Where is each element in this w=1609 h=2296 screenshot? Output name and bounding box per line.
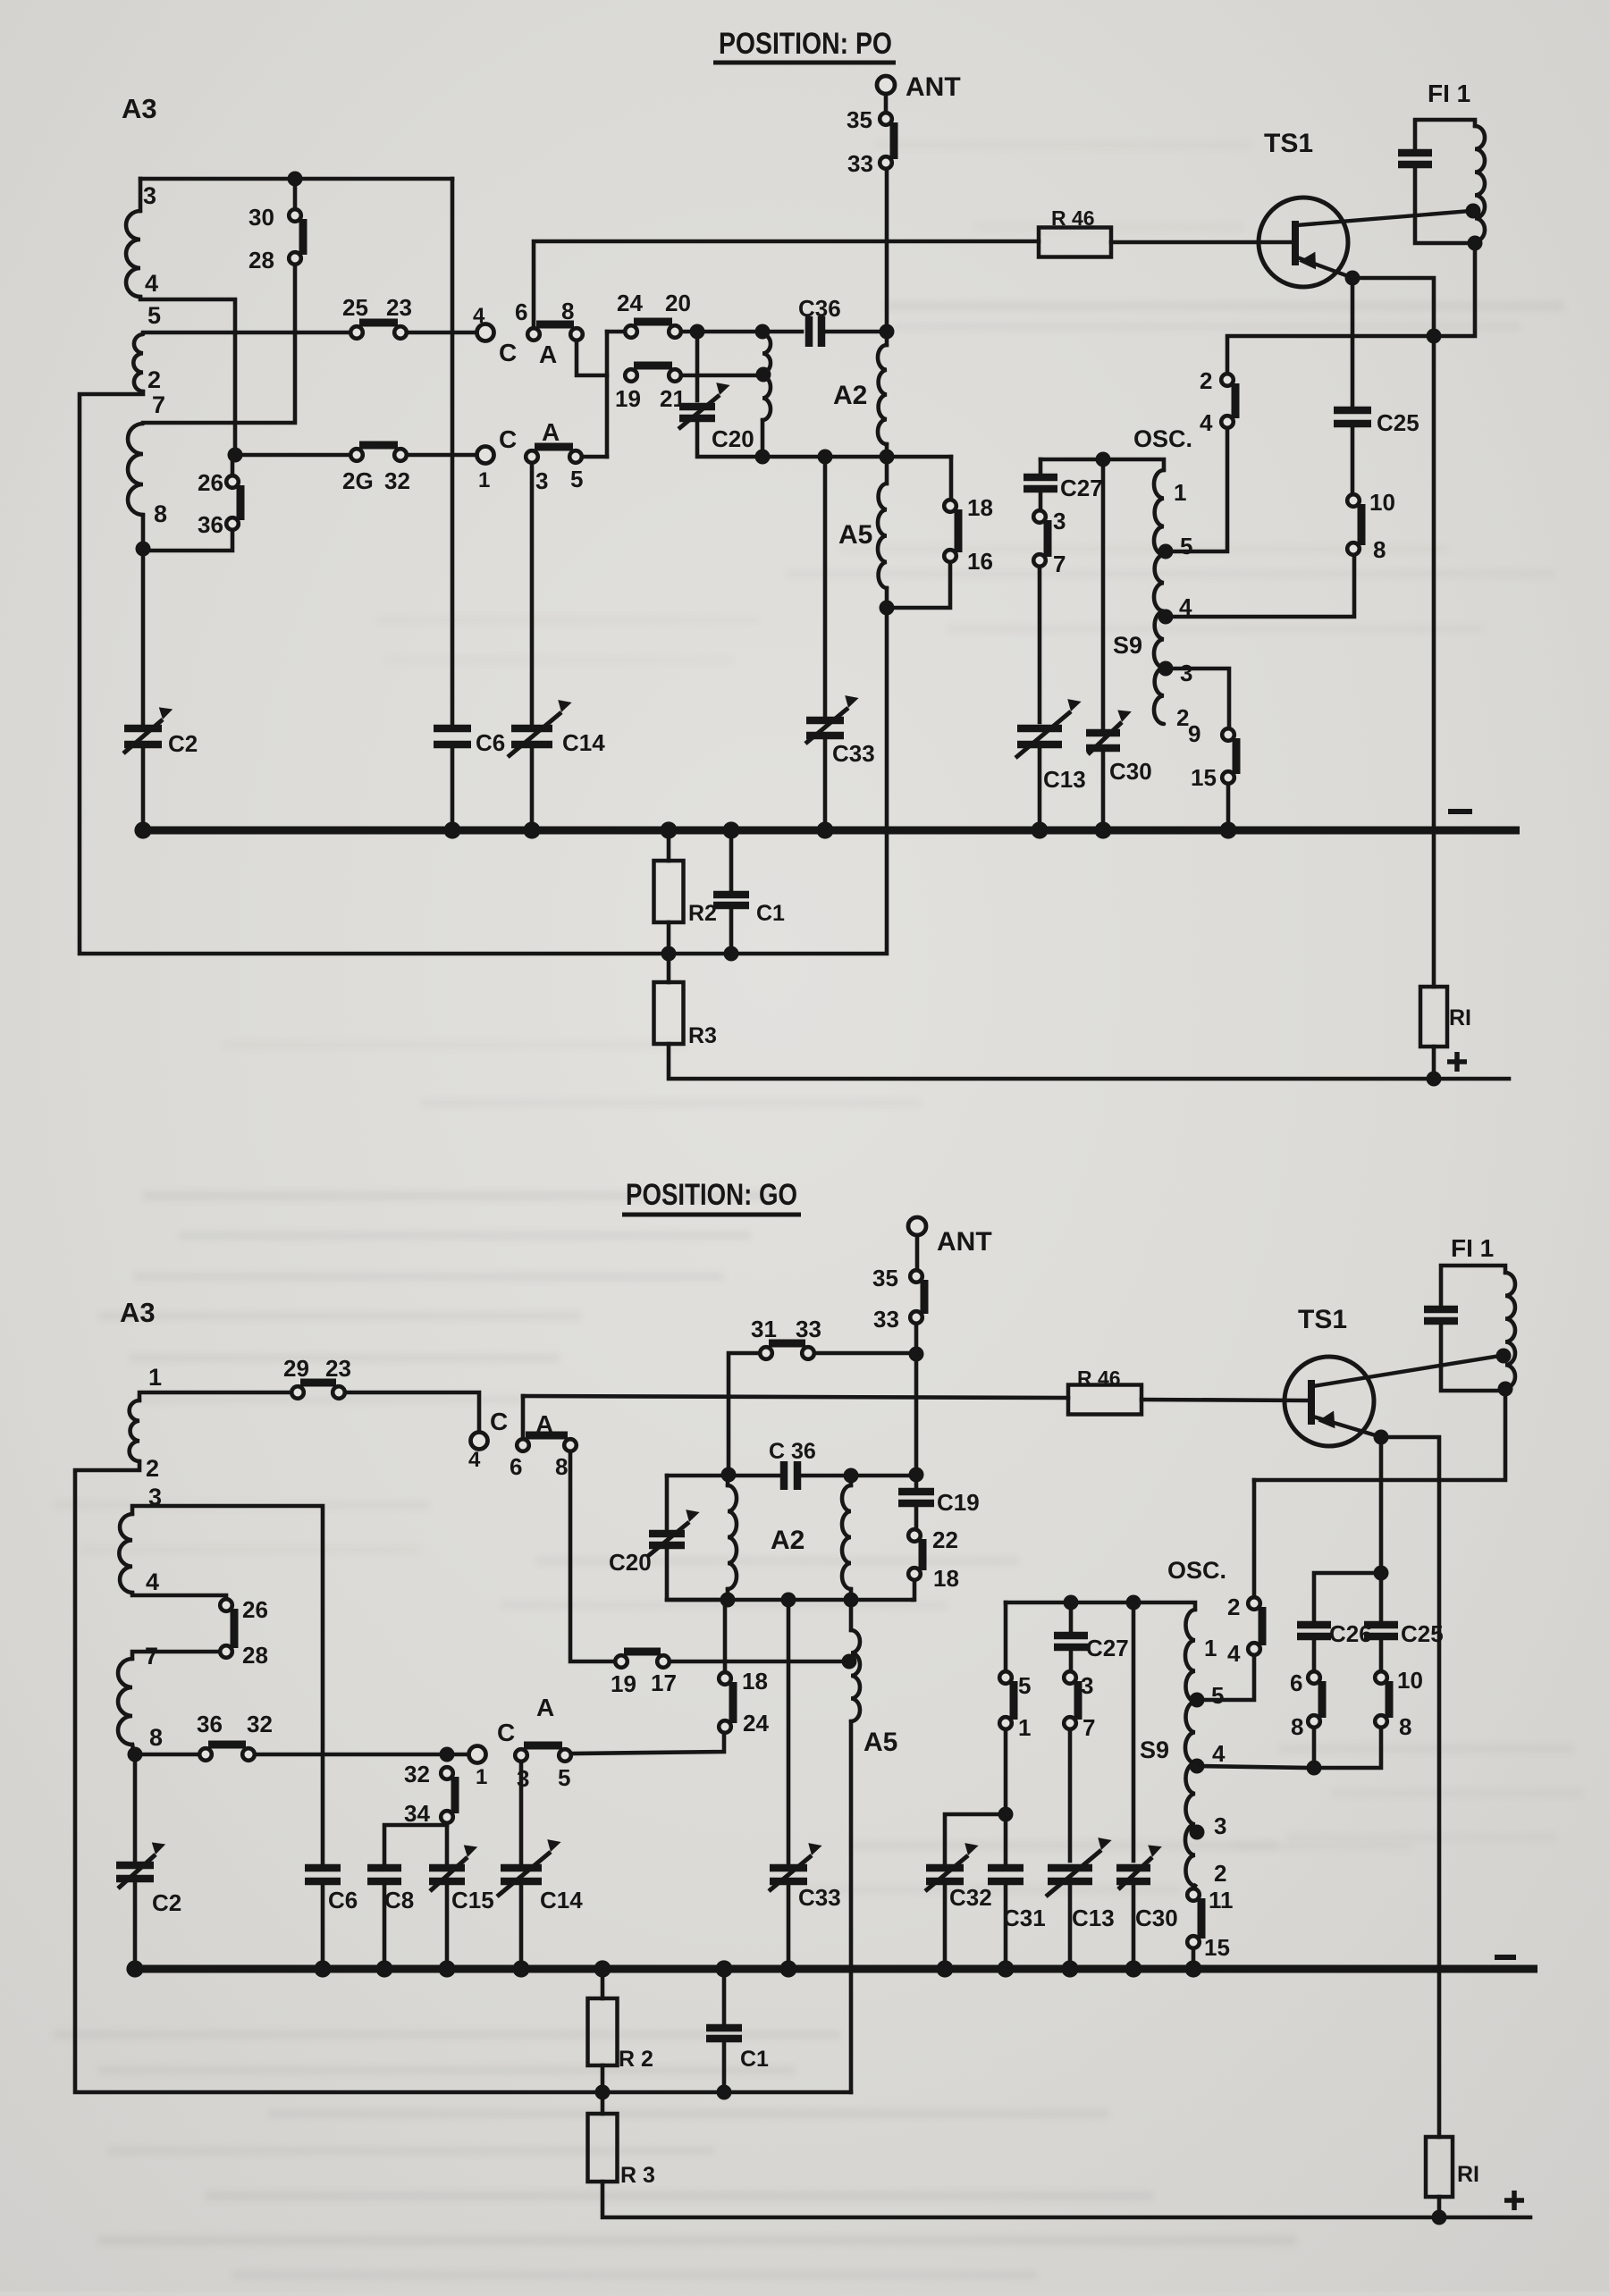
wire C26 up to node row	[1314, 1573, 1376, 1621]
title underline GO	[622, 1213, 801, 1217]
capacitor C36 GO plates	[780, 1461, 788, 1490]
wire bus to R2	[667, 830, 671, 861]
capacitor C20 plates	[679, 403, 715, 411]
switch 5/1 GO contact	[999, 1717, 1012, 1729]
switch 11/15 bar	[1198, 1898, 1206, 1939]
svg-text:6: 6	[1290, 1669, 1302, 1696]
switch 18/24 GO bar	[729, 1682, 737, 1723]
junction osc GO tap 3	[1190, 1825, 1205, 1840]
switch 30/28 contact	[289, 252, 301, 265]
svg-text:10: 10	[1369, 489, 1395, 516]
junction FI1 collector tap	[1466, 204, 1481, 219]
bus GO junction C2	[126, 1960, 143, 1977]
switch 26/36 contact	[226, 475, 239, 488]
wire C30 GO upper	[1132, 1602, 1136, 1861]
wire row y511	[758, 455, 951, 459]
wire A2 GO right foot	[849, 1589, 854, 1600]
svg-text:35: 35	[872, 1265, 898, 1291]
coil A3 GO winding 7-8	[118, 1659, 132, 1745]
capacitor C25 plates	[1334, 407, 1371, 415]
capacitor C30 arrow	[1088, 722, 1122, 754]
switch 24/20 contact	[625, 325, 637, 338]
ground bus GO (negative rail)	[128, 1965, 1537, 1973]
svg-text:8: 8	[555, 1453, 568, 1480]
junction tap4 node GO	[1307, 1761, 1322, 1776]
wire C32 branch	[945, 1814, 1006, 1863]
coil A2 GO right winding	[842, 1485, 851, 1589]
wire C30 upper	[1101, 459, 1106, 727]
svg-text:C36: C36	[798, 295, 841, 322]
wire A2 GO left foot	[726, 1589, 730, 1600]
svg-text:A: A	[542, 418, 560, 446]
negative sign	[1448, 809, 1472, 814]
coil A2 aux winding lower	[762, 376, 771, 420]
switch 26/32 row contact	[350, 449, 363, 461]
svg-text:2: 2	[1227, 1594, 1240, 1620]
wire contact 16 down	[887, 562, 950, 608]
wire osc row to contact 5 GO	[1004, 1602, 1008, 1671]
svg-text:18: 18	[933, 1565, 959, 1592]
wire tap4 to contact 8 right	[1314, 1728, 1381, 1768]
junction emitter column top	[1427, 329, 1442, 344]
switch 10/8 contact	[1347, 494, 1360, 507]
wire C33 GO lower	[787, 1885, 791, 1969]
switch 31/33 contact	[760, 1347, 772, 1359]
coil A3 winding 7-8	[128, 424, 143, 515]
junction A5 bottom	[880, 601, 895, 616]
switch A 3/5 GO bar	[524, 1742, 562, 1750]
capacitor C31 plates	[988, 1864, 1024, 1872]
svg-text:RI: RI	[1457, 2162, 1479, 2187]
wire contact 28 to pin7 GO	[132, 1652, 220, 1659]
capacitor C30 plates	[1086, 729, 1120, 737]
svg-text:C: C	[499, 339, 517, 366]
wire row to terminal 4 GO	[345, 1392, 479, 1433]
switch 18/16 bar	[955, 509, 963, 552]
wire row y509 left	[235, 453, 350, 458]
svg-text:C: C	[499, 425, 517, 453]
wire row to terminal 1	[407, 453, 477, 458]
wire FI1 GO cap down	[1441, 1325, 1504, 1391]
svg-text:26: 26	[242, 1596, 268, 1623]
capacitor C1 plates	[713, 891, 749, 899]
svg-text:C14: C14	[540, 1887, 583, 1913]
switch 30/28 bar	[299, 219, 307, 255]
wire C27 GO upper	[1069, 1602, 1074, 1630]
coil A2 aux winding upper	[762, 334, 771, 373]
junction A3 pin4 node	[228, 448, 243, 463]
wire contact 34 to C8	[384, 1825, 447, 1863]
svg-text:C19: C19	[937, 1489, 980, 1516]
junction A2 GO bottom right	[844, 1593, 859, 1608]
switch A 6/8 GO contact	[564, 1439, 577, 1451]
junction emitter branch GO	[1374, 1566, 1389, 1581]
bus GO junction C1	[715, 1960, 732, 1977]
junction emitter node	[1345, 271, 1360, 286]
svg-text:2: 2	[146, 1455, 159, 1482]
wire pin8 row GO	[135, 1753, 199, 1757]
svg-text:4: 4	[1200, 409, 1213, 436]
switch 26/28 GO contact	[220, 1645, 232, 1658]
switch 25/23 bar	[359, 319, 398, 327]
wire A2 bottom to contact 18	[949, 457, 954, 499]
terminal C pole 1	[477, 447, 494, 464]
svg-text:33: 33	[847, 150, 873, 177]
wire C6 GO lower	[321, 1885, 325, 1969]
junction C33 top	[818, 450, 833, 465]
wire C33 GO upper	[787, 1600, 791, 1863]
transistor TS1 GO circle	[1285, 1357, 1374, 1446]
wire 21 to coil tap	[681, 374, 758, 378]
transistor TS1 emitter	[1297, 257, 1351, 277]
svg-text:1: 1	[1174, 479, 1186, 506]
bus junction C13	[1031, 821, 1048, 838]
svg-text:26: 26	[198, 469, 223, 496]
bus junction C2	[134, 821, 151, 838]
wire A3 pin2 left border down	[80, 391, 669, 954]
wire emitter to C25	[1351, 278, 1355, 405]
switch 19/17 bar	[624, 1648, 661, 1656]
wire C20 lower	[697, 422, 758, 457]
svg-text:C: C	[497, 1719, 515, 1746]
switch 32/34 contact	[441, 1811, 453, 1823]
transistor TS1 emitter arrow	[1299, 248, 1322, 270]
svg-text:20: 20	[665, 290, 691, 316]
svg-text:A5: A5	[838, 520, 872, 550]
wire link 24-19-5 vertical	[605, 332, 610, 457]
coil A3 winding 5-2	[133, 334, 143, 391]
junction A2 aux top	[755, 324, 771, 340]
junction C36 node	[880, 324, 895, 340]
wire A5 top	[885, 457, 889, 484]
svg-text:19: 19	[615, 385, 641, 412]
switch 32/34 bar	[451, 1777, 459, 1813]
wire contact 15 to bus	[1226, 784, 1231, 830]
svg-text:TS1: TS1	[1298, 1305, 1347, 1334]
wire C6 column upper	[451, 179, 455, 724]
wire A5 GO lower	[849, 1721, 854, 2092]
svg-text:FI 1: FI 1	[1428, 80, 1470, 107]
svg-text:A3: A3	[120, 1297, 156, 1328]
junction A2 aux tap	[756, 367, 771, 383]
wire C30 lower	[1101, 752, 1106, 830]
capacitor C13 GO arrow	[1046, 1850, 1101, 1897]
svg-text:C2: C2	[152, 1889, 181, 1916]
wire A3 pin5 row left	[143, 331, 350, 335]
switch 36/32 GO contact	[242, 1748, 255, 1761]
wire contact 4 to osc tap5	[1174, 428, 1227, 551]
bus junction C33	[816, 821, 833, 838]
capacitor C1 GO plates	[706, 2024, 742, 2032]
switch 9/15 bar	[1233, 738, 1241, 774]
wire C32 lower	[943, 1885, 948, 1969]
svg-text:3: 3	[1180, 660, 1192, 686]
wire C14 lower	[530, 748, 535, 830]
wire C31 lower	[1004, 1885, 1008, 1969]
svg-text:4: 4	[473, 304, 485, 328]
switch 19/17 contact	[657, 1655, 670, 1668]
svg-text:C 36: C 36	[769, 1439, 816, 1464]
svg-text:C13: C13	[1072, 1905, 1115, 1931]
svg-text:R 46: R 46	[1077, 1367, 1121, 1390]
capacitor C6 GO plates	[305, 1864, 341, 1872]
switch 25/23 contact	[394, 326, 407, 339]
svg-text:C33: C33	[832, 740, 875, 767]
bus GO junction C14	[512, 1960, 529, 1977]
switch 26/32 row contact	[394, 449, 407, 461]
svg-text:C30: C30	[1109, 758, 1152, 785]
capacitor C2 GO arrow	[118, 1854, 156, 1888]
capacitor C30 GO arrow	[1118, 1857, 1152, 1889]
junction FI1 bottom	[1468, 236, 1483, 251]
wire contact 31 down to A2 top	[729, 1353, 760, 1470]
svg-text:C1: C1	[740, 2047, 769, 2072]
junction positive rail R1	[1427, 1072, 1442, 1087]
svg-text:1: 1	[476, 1765, 487, 1789]
wire C13 to bus	[1038, 748, 1042, 830]
wire contact 8 down	[577, 341, 607, 375]
capacitor C27 plates	[1024, 474, 1057, 482]
svg-text:C31: C31	[1003, 1905, 1046, 1931]
coil A3 winding 3-4	[126, 211, 140, 297]
bus GO junction R2	[594, 1960, 611, 1977]
wire C19 upper	[914, 1476, 919, 1486]
terminal C pole 1 GO	[469, 1746, 486, 1763]
switch 6/8 GO bar	[1318, 1681, 1327, 1718]
switch 24/20 bar	[634, 318, 672, 326]
svg-text:OSC.: OSC.	[1133, 425, 1192, 452]
transistor TS1 GO base bar	[1308, 1380, 1315, 1425]
svg-text:TS1: TS1	[1264, 129, 1313, 158]
switch 5/1 GO bar	[1010, 1681, 1018, 1720]
wire C6 column lower	[451, 749, 455, 830]
capacitor C6 plates	[434, 725, 471, 733]
bus junction C1	[722, 821, 739, 838]
svg-text:C27: C27	[1060, 475, 1103, 501]
svg-text:C20: C20	[609, 1549, 652, 1576]
svg-text:5: 5	[570, 466, 583, 492]
switch 2/4 GO contact	[1248, 1597, 1260, 1610]
resistor R3	[654, 982, 684, 1044]
switch 5/1 GO contact	[999, 1671, 1012, 1684]
wire C1 to node	[729, 909, 734, 954]
switch 22/18 GO contact	[908, 1568, 921, 1580]
coil OSC S9 GO winding	[1185, 1610, 1195, 1886]
wire contact 36 down	[143, 530, 232, 551]
svg-text:2: 2	[1200, 367, 1212, 394]
junction osc tap 3	[1158, 661, 1174, 677]
wire A5 foot	[885, 588, 889, 608]
svg-text:17: 17	[651, 1669, 677, 1696]
svg-text:C25: C25	[1401, 1620, 1444, 1647]
svg-text:A: A	[536, 1694, 554, 1721]
wire link to contact 24	[607, 330, 624, 334]
capacitor C19 plates	[898, 1488, 934, 1496]
wire A3 pin8 node	[132, 1745, 134, 1754]
switch 2/4 bar	[1232, 383, 1240, 418]
svg-text:4: 4	[1212, 1740, 1226, 1767]
switch 6/8 GO contact	[1308, 1671, 1320, 1684]
wire contact 6 up to R46 line	[534, 241, 1039, 328]
bus GO junction C15	[438, 1960, 455, 1977]
wire contact 10 to C25 GO	[1379, 1642, 1384, 1671]
switch 26/28 GO contact	[220, 1599, 232, 1611]
capacitor C20 arrow	[678, 395, 720, 429]
terminal C pole 4 GO	[471, 1433, 488, 1450]
wire R46 to TS1 base	[1111, 240, 1292, 245]
wire C2 GO lower	[133, 1882, 138, 1969]
coil A5 GO winding	[851, 1630, 860, 1721]
svg-text:A3: A3	[122, 93, 157, 124]
wire bus to R2 GO	[601, 1969, 605, 1998]
wire contact 7 to C13 GO	[1068, 1729, 1073, 1861]
wire aux winding foot	[761, 420, 765, 457]
wire node to R3 GO	[601, 2092, 605, 2114]
svg-text:15: 15	[1204, 1934, 1230, 1961]
capacitor C13 plates	[1017, 725, 1062, 733]
coil OSC S9 winding	[1154, 470, 1164, 724]
terminal ANT	[877, 76, 895, 94]
wire C25 GO up	[1379, 1578, 1384, 1621]
switch 35/33 contact	[880, 156, 892, 169]
junction osc tap 4	[1158, 610, 1174, 625]
switch 29/23 contact	[333, 1386, 345, 1399]
svg-text:5: 5	[1180, 533, 1192, 559]
switch 30/28 contact	[289, 209, 301, 222]
svg-text:33: 33	[873, 1306, 899, 1333]
positive sign GO	[1504, 2191, 1524, 2210]
svg-text:2G: 2G	[342, 467, 374, 494]
svg-text:C1: C1	[756, 901, 785, 926]
wire C20 GO lower	[667, 1549, 720, 1600]
switch 29/23 bar	[300, 1379, 336, 1387]
junction FI1 GO bottom	[1498, 1382, 1513, 1397]
switch 11/15 contact	[1187, 1888, 1200, 1901]
svg-text:1: 1	[1204, 1635, 1217, 1661]
switch 2/4 GO bar	[1259, 1607, 1267, 1645]
capacitor C14 GO plates	[501, 1864, 542, 1872]
wire C20 upper	[695, 332, 700, 400]
svg-text:1: 1	[148, 1364, 162, 1391]
capacitor C26 plates	[1297, 1621, 1331, 1629]
transistor TS1 circle	[1259, 198, 1348, 287]
wire contact 6 to C26	[1312, 1642, 1317, 1671]
wire C36 to antenna column	[826, 330, 887, 334]
wire C13 GO lower	[1068, 1885, 1073, 1969]
junction C27 GO top	[1064, 1595, 1079, 1611]
svg-text:2: 2	[1214, 1860, 1226, 1887]
svg-text:15: 15	[1191, 764, 1217, 791]
switch 18/24 GO contact	[719, 1720, 731, 1733]
capacitor C14 GO arrow	[497, 1852, 551, 1897]
svg-text:36: 36	[198, 511, 223, 538]
capacitor C2 plates	[124, 725, 162, 733]
wire R46 GO to TS1 base	[1141, 1400, 1307, 1400]
wire C2 to bus	[141, 749, 146, 830]
switch A 3/5 contact	[569, 450, 582, 463]
junction osc tap 5	[1158, 544, 1174, 559]
svg-text:7: 7	[145, 1643, 158, 1669]
svg-text:18: 18	[967, 494, 993, 521]
switch 3/7 GO contact	[1064, 1671, 1076, 1684]
switch 18/16 contact	[944, 500, 956, 512]
svg-text:7: 7	[1082, 1714, 1095, 1741]
svg-text:23: 23	[325, 1355, 351, 1382]
junction C20 top	[690, 324, 705, 340]
negative sign GO	[1495, 1955, 1516, 1960]
switch 35/33 GO contact	[910, 1270, 922, 1283]
svg-text:A2: A2	[833, 381, 867, 410]
svg-text:C2: C2	[168, 730, 198, 757]
wire A3 pin7 link	[143, 421, 235, 425]
svg-text:R 3: R 3	[620, 2163, 655, 2188]
wire bottom return to A5 foot	[669, 608, 887, 954]
bus GO junction C13	[1061, 1960, 1078, 1977]
svg-text:1: 1	[1018, 1714, 1031, 1741]
wire ANT GO down	[915, 1235, 920, 1270]
resistor R1 GO	[1426, 2137, 1453, 2197]
capacitor C8 plates	[367, 1864, 401, 1872]
wire contact 15 GO to bus	[1192, 1948, 1196, 1969]
junction emitter node GO	[1374, 1430, 1389, 1445]
junction C1 bottom GO	[717, 2085, 732, 2100]
wire junction to contact 30	[293, 179, 298, 208]
wire contact 8 to osc tap4	[1173, 555, 1354, 617]
junction C19 node	[909, 1468, 924, 1483]
capacitor C2 arrow	[123, 719, 163, 753]
switch A 6/8 GO bar	[526, 1432, 568, 1440]
wire emitter column to R1 GO	[1437, 1480, 1442, 2137]
switch 3/7 contact	[1033, 510, 1046, 523]
svg-text:3: 3	[143, 182, 156, 209]
capacitor C25 GO plates	[1364, 1621, 1398, 1629]
junction C33 GO top	[781, 1593, 796, 1608]
switch 11/15 contact	[1187, 1936, 1200, 1948]
svg-text:8: 8	[149, 1724, 163, 1751]
wire ANT down	[884, 94, 889, 113]
ground bus (negative rail)	[140, 827, 1520, 835]
transistor TS1 GO collector	[1313, 1356, 1500, 1386]
junction C32 row	[998, 1807, 1014, 1822]
wire osc GO top row	[1006, 1602, 1195, 1610]
svg-text:32: 32	[384, 467, 410, 494]
resistor R2	[654, 861, 684, 922]
junction top link	[288, 172, 303, 187]
svg-text:4: 4	[1179, 593, 1192, 620]
bus junction 15	[1219, 821, 1236, 838]
wire C33 upper	[823, 457, 828, 716]
svg-text:ANT: ANT	[906, 72, 961, 102]
svg-text:R2: R2	[688, 901, 717, 926]
switch 22/18 GO contact	[908, 1529, 921, 1542]
svg-text:7: 7	[1053, 551, 1066, 577]
wire R46 GO line	[523, 1396, 1068, 1398]
switch 10/8 contact	[1347, 542, 1360, 555]
svg-text:8: 8	[1291, 1713, 1303, 1740]
svg-text:33: 33	[796, 1316, 821, 1342]
junction A2 GO top left	[721, 1468, 737, 1483]
capacitor C33 GO arrow	[769, 1855, 812, 1891]
coil A2 winding	[878, 345, 887, 444]
switch 35/33 GO contact	[910, 1311, 922, 1324]
switch 2/4 contact	[1221, 416, 1234, 428]
bus GO junction 15	[1184, 1960, 1201, 1977]
wire R3 to positive rail	[669, 1044, 1509, 1079]
svg-text:34: 34	[404, 1800, 430, 1827]
coil A3 GO winding 3-4	[119, 1514, 132, 1593]
switch A 6/8 GO contact	[517, 1439, 529, 1451]
wire contact 18 up to A2 bottom	[723, 1599, 728, 1672]
